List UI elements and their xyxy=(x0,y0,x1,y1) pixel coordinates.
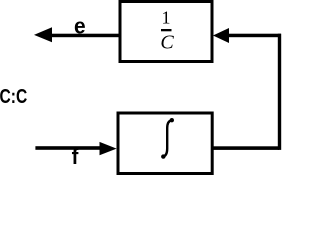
arrowhead: feedback arrow pointing left into block U1 right side xyxy=(213,28,229,43)
arrowhead: e arrow pointing left xyxy=(34,27,52,42)
wire: feedback bottom segment from integrator output to right rail xyxy=(213,146,279,150)
label e xyxy=(74,14,86,39)
label f xyxy=(72,145,80,169)
wire: feedback top segment from right rail into block U1 xyxy=(227,34,281,38)
label C:C (bond graph element name) xyxy=(0,85,27,107)
svg-text:C: C xyxy=(160,32,174,54)
block U2: integrator box xyxy=(118,113,212,174)
arrowhead: f arrow pointing right into integrator xyxy=(100,142,117,155)
wire: feedback right vertical rail xyxy=(278,34,281,150)
svg-text:e: e xyxy=(74,14,86,39)
svg-text:f: f xyxy=(72,145,80,169)
wire: flow input f into block U2 xyxy=(35,146,100,150)
value label 1/C (fraction) inside block U1 xyxy=(160,8,174,54)
value label integral sign inside block U2 xyxy=(161,118,174,159)
block U1: 1/C gain box xyxy=(120,2,212,62)
svg-text:C:C: C:C xyxy=(0,85,27,107)
wire: effort output e from block U1 left side xyxy=(48,34,120,38)
svg-text:1: 1 xyxy=(162,8,171,28)
